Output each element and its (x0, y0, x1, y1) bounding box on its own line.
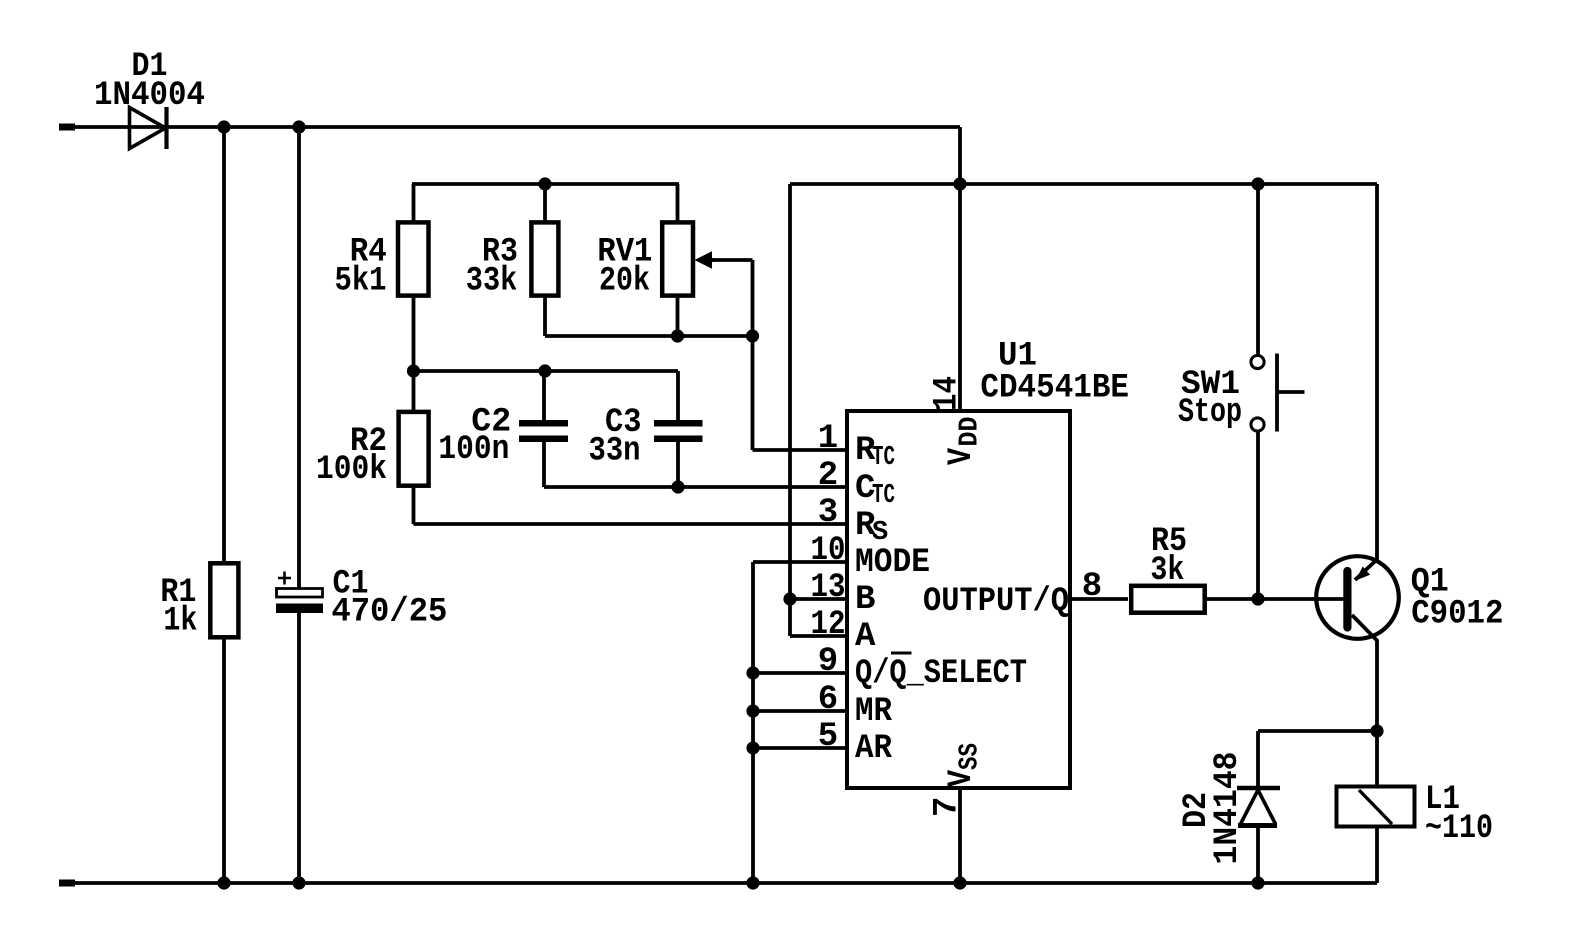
svg-text:TC: TC (872, 481, 895, 511)
junction D2 / bottom rail (1251, 876, 1264, 889)
wire Ctc net to pin2 (544, 485, 847, 489)
designator C2 (471, 404, 511, 442)
value 3k (1150, 552, 1184, 590)
svg-text:MR: MR (855, 693, 893, 731)
junction RV1 wiper / Rtc net (746, 329, 759, 342)
svg-text:2: 2 (818, 457, 838, 495)
junction ground tie / bottom rail (746, 876, 759, 889)
junction R1 / bottom rail (217, 876, 230, 889)
svg-text:5k1: 5k1 (335, 263, 387, 301)
value 1N4004 (94, 77, 205, 115)
svg-text:1N4148: 1N4148 (1209, 752, 1247, 865)
capacitor C3 (654, 420, 703, 442)
junction Q1 collector / D2 / L1 (1370, 724, 1383, 737)
designator L1 (1425, 781, 1460, 819)
junction SW1 / base net (1251, 592, 1264, 605)
designator D1 (132, 48, 168, 86)
svg-text:DD: DD (956, 417, 986, 447)
junction VDD branch / pin14 (953, 177, 966, 190)
pin label VDD (rotated) (943, 417, 986, 466)
value 20k (599, 263, 650, 301)
wire C3 legs (676, 371, 680, 487)
wire R1 branch (222, 127, 226, 883)
value 1k (163, 603, 197, 641)
designator R1 (160, 574, 196, 612)
svg-text:6: 6 (818, 681, 838, 719)
designator R3 (482, 233, 518, 271)
value ~110 (1425, 810, 1493, 848)
diode D1 (130, 107, 167, 149)
junction C3 bottom / Ctc net (671, 480, 684, 493)
resistor R2 (399, 412, 429, 486)
value C9012 (1411, 596, 1503, 634)
value 470/25 (331, 594, 447, 632)
svg-text:10: 10 (811, 532, 846, 570)
svg-text:9: 9 (818, 643, 838, 681)
designator R5 (1151, 523, 1187, 561)
svg-text:3k: 3k (1150, 552, 1184, 590)
capacitor C1 (electrolytic) (276, 572, 323, 614)
wire R4-R2 chain (414, 184, 848, 524)
svg-text:TC: TC (872, 443, 895, 473)
resistor R5 (1131, 586, 1205, 613)
junction R3 top (538, 177, 551, 190)
svg-text:1k: 1k (163, 603, 197, 641)
top rail (VDD net) (60, 127, 960, 411)
svg-text:8: 8 (1082, 568, 1102, 606)
junction R4-R2 (407, 364, 420, 377)
junction pin 5 / ground tie (746, 741, 759, 754)
svg-text:C9012: C9012 (1411, 596, 1503, 634)
junction pin 7 / bottom rail (953, 876, 966, 889)
svg-text:20k: 20k (599, 263, 650, 301)
value 33k (466, 263, 518, 301)
pin label VSS (rotated) (943, 743, 986, 787)
designator SW1 (1181, 366, 1240, 404)
designator RV1 (597, 234, 652, 272)
svg-text:14: 14 (929, 376, 967, 411)
wire C1 branch (297, 127, 301, 883)
junction pin B tie (783, 592, 796, 605)
svg-text:33k: 33k (466, 263, 518, 301)
resistor R1 (210, 563, 238, 637)
value Stop (1178, 394, 1242, 432)
pin label RS (855, 507, 888, 548)
svg-text:A: A (855, 618, 876, 656)
wire sub-rail R4/R3/RV1 tops (412, 182, 679, 186)
svg-text:1N4004: 1N4004 (94, 77, 205, 115)
svg-text:CD4541BE: CD4541BE (980, 370, 1129, 408)
value 100n (438, 431, 509, 469)
svg-text:12: 12 (811, 606, 846, 644)
relay coil L1 (1337, 787, 1415, 827)
potentiometer RV1 (662, 222, 714, 295)
designator C1 (333, 566, 369, 604)
op-amp U1 IC body CD4541BE (847, 411, 1070, 788)
value CD4541BE (980, 370, 1129, 408)
transistor Q1 (1316, 556, 1399, 639)
value 5k1 (335, 263, 387, 301)
designator D2 (rotated) (1178, 792, 1216, 828)
junction pin 9 / ground tie (746, 666, 759, 679)
svg-text:OUTPUT/Q: OUTPUT/Q (923, 583, 1069, 621)
wire IC pin7 to ground (958, 788, 962, 883)
designator R4 (350, 234, 387, 272)
svg-text:3: 3 (818, 494, 838, 532)
switch SW1 (1251, 354, 1305, 432)
diode D2 (1237, 788, 1280, 826)
wire pin8 output through R5 to Q1 base (1070, 597, 1344, 601)
svg-text:~110: ~110 (1425, 810, 1493, 848)
pin label Q/Q_SELECT (855, 653, 1027, 693)
designator Q1 (1411, 564, 1449, 602)
svg-text:1: 1 (818, 420, 838, 458)
junction pin 6 / ground tie (746, 704, 759, 717)
resistor R4 (398, 222, 429, 295)
junction SW1 top (1251, 177, 1264, 190)
designator C3 (605, 404, 642, 442)
svg-text:100k: 100k (316, 451, 387, 489)
svg-text:470/25: 470/25 (331, 594, 447, 632)
svg-text:Q/Q_SELECT: Q/Q_SELECT (855, 655, 1027, 693)
junction C2 top (538, 364, 551, 377)
pin label RTC (855, 432, 895, 473)
svg-text:33n: 33n (589, 433, 641, 471)
pin label CTC (855, 470, 895, 511)
wire RV1 branch (676, 184, 680, 336)
designator R2 (350, 423, 387, 461)
svg-text:V: V (943, 448, 981, 465)
bottom rail (ground/return net) (60, 881, 1377, 885)
svg-text:13: 13 (811, 569, 846, 607)
wire D2 legs (1256, 731, 1260, 883)
left input terminal top (59, 124, 75, 131)
svg-text:B: B (855, 581, 875, 619)
wire SW1 legs (1256, 184, 1260, 599)
wire MODE/9/6/5 to ground (753, 562, 847, 883)
svg-text:7: 7 (929, 797, 967, 817)
svg-text:SS: SS (956, 743, 986, 770)
designator U1 (998, 338, 1037, 376)
svg-text:Stop: Stop (1178, 394, 1242, 432)
wire Q1 emitter and collector (1352, 184, 1378, 731)
svg-text:5: 5 (818, 718, 838, 756)
wire C2 legs (542, 371, 546, 487)
junction R1 / top rail (217, 120, 230, 133)
wire RV1 wiper to pin1 (710, 260, 847, 450)
svg-text:100n: 100n (438, 431, 509, 469)
junction C1 / top rail (292, 120, 305, 133)
value 1N4148 (rotated) (1209, 752, 1247, 865)
resistor R3 (531, 222, 558, 295)
value 100k (316, 451, 387, 489)
value 33n (589, 433, 641, 471)
capacitor C2 (519, 420, 568, 442)
left input terminal bottom (59, 880, 75, 887)
svg-text:V: V (943, 770, 981, 787)
svg-text:AR: AR (855, 730, 893, 768)
wire collector node to relay and D2 (1258, 731, 1377, 883)
junction RV1 bottom (671, 329, 684, 342)
wire R3 branch (545, 184, 753, 336)
wire VDD branch to A/B and SW1 and Q1 emitter (790, 184, 1377, 636)
wire sub-rail C2/C3 tops (414, 369, 679, 373)
junction C1 / bottom rail (292, 876, 305, 889)
svg-text:MODE: MODE (855, 544, 930, 582)
